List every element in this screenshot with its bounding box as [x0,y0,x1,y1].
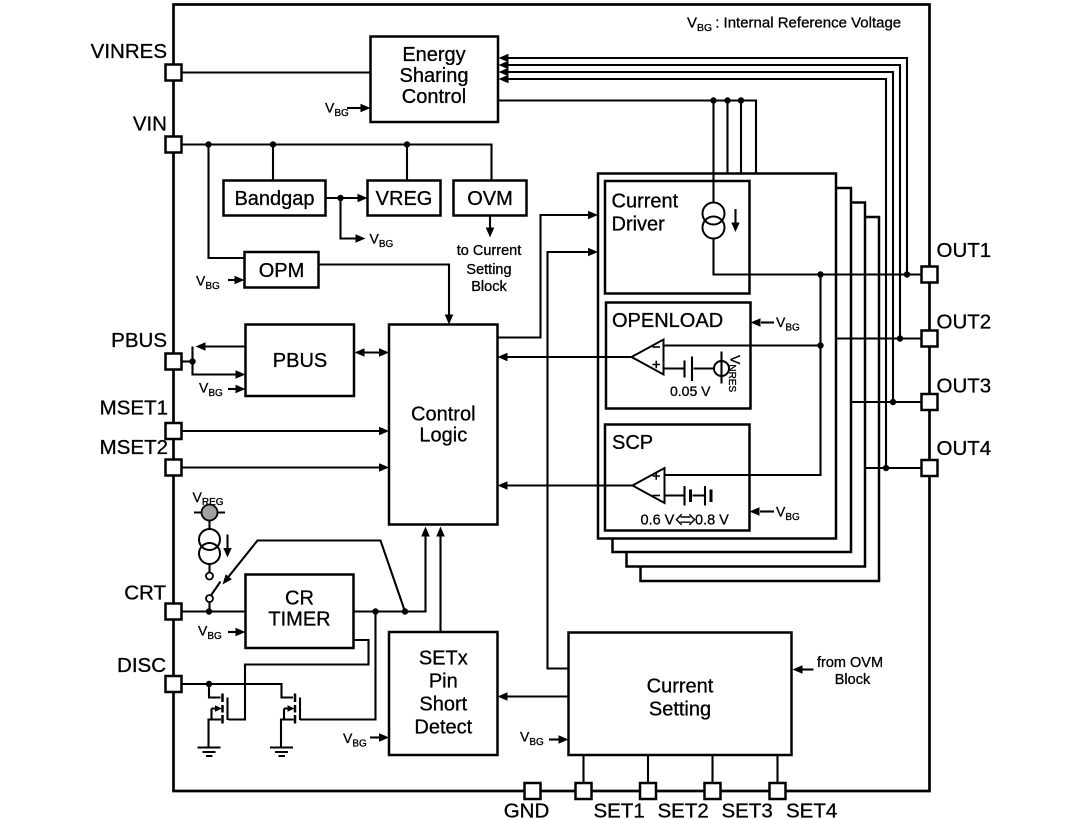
svg-text:VINRES: VINRES [91,40,167,63]
svg-text:Driver: Driver [612,214,666,236]
svg-text:TIMER: TIMER [268,609,330,631]
svg-text:SET1: SET1 [594,800,645,819]
svg-text:PBUS: PBUS [111,329,167,352]
svg-text:Control: Control [411,404,475,426]
svg-text:MSET2: MSET2 [100,436,168,459]
svg-text:Block: Block [835,672,871,688]
svg-text:SET4: SET4 [786,800,837,819]
svg-text:VIN: VIN [133,113,167,136]
svg-text:Pin: Pin [429,671,458,693]
svg-text:GND: GND [504,800,550,819]
svg-text:Short: Short [419,694,467,716]
svg-text:OUT1: OUT1 [937,239,992,262]
svg-text:SET3: SET3 [722,800,773,819]
svg-text:Block: Block [471,279,507,295]
svg-text:Current: Current [647,676,714,698]
svg-text:VREG: VREG [376,188,433,210]
svg-text:SETx: SETx [419,648,468,670]
svg-text:Bandgap: Bandgap [234,188,314,210]
svg-text:to Current: to Current [457,243,521,259]
svg-text:SET2: SET2 [658,800,709,819]
svg-text:OVM: OVM [467,188,513,210]
svg-text:Sharing: Sharing [400,65,469,87]
svg-text:OUT4: OUT4 [937,437,992,460]
svg-text:SCP: SCP [612,432,653,454]
svg-text:CRT: CRT [124,582,166,605]
svg-text:VBG : Internal Reference Volta: VBG : Internal Reference Voltage [687,15,901,35]
svg-text:Setting: Setting [466,262,511,278]
svg-text:Detect: Detect [414,717,472,739]
svg-text:Current: Current [612,191,679,213]
svg-text:PBUS: PBUS [273,350,327,372]
svg-text:DISC: DISC [117,654,166,677]
svg-text:Control: Control [402,86,466,108]
svg-text:OPENLOAD: OPENLOAD [612,310,723,332]
svg-text:CR: CR [285,588,314,610]
svg-text:OUT3: OUT3 [937,375,992,398]
svg-text:Setting: Setting [649,699,711,721]
svg-text:0.6 V: 0.6 V [641,513,675,529]
svg-text:Energy: Energy [402,44,465,66]
svg-text:from OVM: from OVM [817,655,883,671]
svg-text:MSET1: MSET1 [100,397,168,420]
svg-text:OPM: OPM [259,260,305,282]
svg-text:0.05 V: 0.05 V [670,383,711,399]
svg-text:Logic: Logic [419,425,467,447]
svg-text:OUT2: OUT2 [937,311,992,334]
svg-text:0.8 V: 0.8 V [695,513,729,529]
